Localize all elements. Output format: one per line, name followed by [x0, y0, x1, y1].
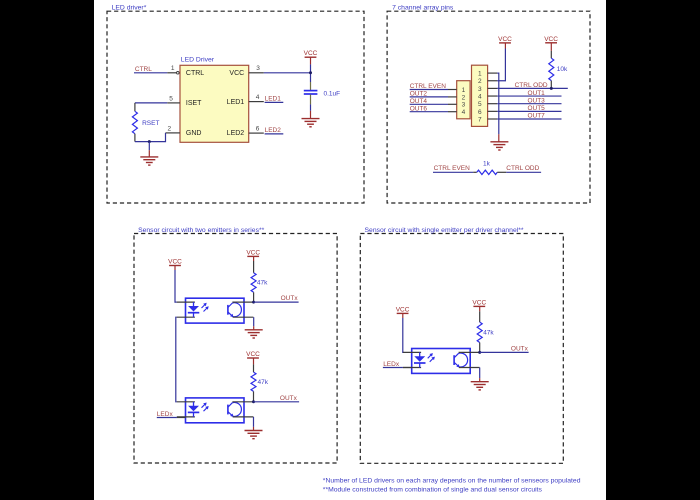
resistor RC 47k stem red [479, 306, 481, 311]
svg-text:7 channel array pins: 7 channel array pins [392, 5, 454, 12]
svg-text:OUTx: OUTx [280, 395, 298, 402]
svg-text:CTRL: CTRL [186, 70, 204, 77]
resistor RA 47k bottom lead [253, 292, 255, 302]
svg-text:VCC: VCC [498, 36, 512, 43]
resistor RA 47k stem red [253, 256, 255, 261]
ground under J2 [490, 142, 508, 150]
svg-text:47k: 47k [257, 280, 268, 287]
wire LED1 net [265, 101, 284, 103]
svg-text:47k: 47k [483, 329, 494, 336]
wire cap to ground blue [310, 104, 312, 110]
wire OUT5 net [497, 110, 561, 112]
connector J1 pin 4 stub [448, 111, 457, 113]
svg-text:VCC: VCC [168, 259, 182, 266]
wire OUT7 net [497, 118, 561, 120]
svg-text:**Module constructed from comb: **Module constructed from combination of… [323, 486, 543, 493]
svg-text:OUTx: OUTx [281, 295, 299, 302]
wire CTRL net [134, 72, 167, 74]
svg-text:5: 5 [169, 96, 173, 103]
junction dot OUTx B [252, 400, 255, 403]
frame: LED driver section [107, 11, 364, 203]
power VCC over J2 [498, 36, 512, 43]
resistor RB 47k stem red [253, 358, 255, 364]
opto sensor A emitter stub [233, 316, 254, 318]
resistor RC 47k bottom lead [479, 343, 481, 353]
wire ground stem red [148, 150, 150, 157]
svg-text:LED2: LED2 [227, 130, 245, 137]
resistor R 10k bottom lead [550, 81, 552, 89]
svg-text:RSET: RSET [142, 120, 159, 127]
svg-text:LED1: LED1 [227, 99, 245, 106]
pin 5 stub [167, 102, 180, 104]
opto sensor B light arrows [202, 403, 209, 412]
resistor RA 47k body [251, 273, 256, 293]
junction dot CTRL ODD [550, 87, 553, 90]
wire OUT4 net [410, 103, 448, 105]
wire CTRL ODD net [497, 87, 568, 89]
svg-text:LEDx: LEDx [383, 361, 400, 368]
opto sensor B body [186, 398, 245, 423]
svg-text:LED Driver: LED Driver [181, 57, 215, 64]
opto sensor A LED anode stub [177, 301, 195, 303]
wire cap ground stem red [310, 111, 312, 119]
wire CTRL ODD lower [506, 171, 541, 173]
wire A ground stem red [253, 326, 255, 330]
connector J2 pin 1 stub [488, 72, 498, 74]
wire LEDx C [383, 367, 403, 369]
svg-text:3: 3 [256, 65, 260, 72]
svg-text:VCC: VCC [304, 50, 318, 57]
black letterbox right [606, 0, 700, 500]
frame: 7 channel array pins section [387, 11, 590, 203]
svg-text:OUTx: OUTx [511, 346, 529, 353]
connector J2 pin 6 stub [488, 110, 498, 112]
opto sensor A collector stub [232, 301, 253, 303]
svg-text:OUT5: OUT5 [527, 105, 545, 112]
connector J2 7-pin header body [472, 65, 488, 126]
connector J2 pin 4 stub [488, 95, 498, 97]
power VCC symbol [304, 50, 318, 57]
opto sensor A LED emitter diode [188, 302, 200, 317]
opto sensor A light arrows [202, 303, 209, 312]
opto sensor B emitter stub [233, 416, 254, 418]
svg-text:7: 7 [478, 116, 482, 123]
wire J2 ground stem red [498, 134, 500, 142]
svg-text:6: 6 [256, 126, 260, 133]
wire OUTx A [254, 301, 299, 303]
connector J2 pin 3 stub [488, 87, 498, 89]
resistor R 1k body [477, 170, 498, 174]
wire OUTx C [480, 351, 529, 353]
wire rail to ground [148, 142, 150, 151]
wire GND pin to rail [135, 133, 166, 142]
opto sensor C phototransistor [454, 353, 468, 367]
svg-text:3: 3 [478, 86, 482, 93]
svg-text:Sensor circuit with two emitte: Sensor circuit with two emitters in seri… [138, 227, 265, 234]
wire OUT3 net [497, 103, 561, 105]
junction dot VCC node [309, 71, 312, 74]
pin 1 circle [177, 72, 180, 75]
svg-text:1k: 1k [483, 161, 491, 168]
wire A emitter to ground [253, 317, 255, 326]
wire VCC net [264, 72, 311, 74]
svg-text:2: 2 [168, 125, 172, 132]
svg-text:2: 2 [478, 78, 482, 85]
svg-text:LED1: LED1 [265, 95, 282, 102]
svg-text:6: 6 [478, 109, 482, 116]
wire B ground stem red [253, 427, 255, 431]
resistor R 10k stem red [550, 43, 552, 51]
resistor RA 47k top lead [253, 261, 255, 273]
wire VCC A stem red [174, 266, 176, 271]
pin 1 stub [167, 72, 176, 74]
power VCC sensor A anode [168, 259, 182, 266]
ground under RSET [140, 157, 158, 165]
pin 6 stub [249, 132, 264, 134]
opto sensor B phototransistor [228, 402, 242, 416]
wire cap bottom lead [310, 95, 312, 105]
opto sensor C LED emitter diode [414, 352, 426, 367]
svg-text:4: 4 [462, 109, 466, 116]
wire VCC C stem red [402, 313, 404, 318]
opto sensor C LED anode stub [403, 351, 421, 353]
wire LEDx B stub [177, 417, 186, 419]
resistor RB 47k top lead [253, 364, 255, 372]
opto sensor C light arrows [428, 353, 435, 362]
wire B emitter to ground [253, 417, 255, 427]
opto sensor C LED cathode stub [403, 367, 421, 369]
wire C emitter to ground [479, 368, 481, 379]
opto sensor A phototransistor [228, 303, 242, 317]
svg-text:Sensor circuit with single emi: Sensor circuit with single emitter per d… [365, 227, 524, 234]
resistor R 10k body [549, 58, 554, 80]
wire J2 pin2 to VCC [497, 49, 505, 81]
svg-text:1: 1 [478, 71, 482, 78]
black letterbox left [0, 0, 94, 500]
resistor RC 47k top lead [479, 311, 481, 322]
resistor R 10k top lead [550, 51, 552, 58]
svg-text:4: 4 [478, 93, 482, 100]
svg-text:10k: 10k [557, 66, 568, 73]
svg-text:GND: GND [186, 130, 202, 137]
wire CTRL EVEN net [410, 89, 448, 91]
wire OUTx B [254, 401, 300, 403]
wire LED2 net [265, 133, 284, 135]
opto sensor B collector stub [232, 401, 253, 403]
wire J2 pin1 to ground [497, 73, 499, 134]
opto sensor C emitter stub [459, 367, 480, 369]
junction dot OUTx A [252, 301, 255, 304]
wire VCC stem red [310, 57, 312, 64]
wire C ground stem red [479, 378, 481, 382]
svg-text:4: 4 [256, 94, 260, 101]
wire OUT6 net [410, 111, 448, 113]
wire OUT2 net [410, 96, 448, 98]
pin 3 stub [249, 72, 264, 74]
opto sensor C collector stub [459, 351, 480, 353]
pin 2 stub [166, 132, 181, 134]
wire LEDx C stub [403, 367, 412, 369]
connector J2 pin 2 stub [488, 80, 498, 82]
wire J2 VCC stem red [504, 43, 506, 49]
svg-text:5: 5 [478, 101, 482, 108]
junction dot OUTx C [478, 351, 481, 354]
wire A cathode to B anode [176, 317, 177, 402]
resistor R 1k left lead [473, 171, 477, 173]
resistor RB 47k bottom lead [253, 391, 255, 401]
svg-text:LED2: LED2 [265, 127, 282, 134]
svg-text:VCC: VCC [229, 70, 244, 77]
svg-text:CTRL: CTRL [135, 66, 152, 73]
svg-text:CTRL ODD: CTRL ODD [506, 165, 539, 172]
svg-text:OUT1: OUT1 [527, 90, 545, 97]
resistor RSET bottom lead [134, 134, 136, 142]
svg-text:*Number of LED drivers on each: *Number of LED drivers on each array dep… [323, 478, 581, 485]
opto sensor A body [186, 298, 245, 323]
svg-text:1: 1 [171, 65, 175, 72]
svg-text:LED driver*: LED driver* [112, 5, 147, 12]
svg-text:1: 1 [462, 87, 466, 94]
wire VCC stem blue [310, 64, 312, 82]
ground sensor B [245, 431, 263, 439]
ground sensor C [471, 382, 489, 390]
svg-text:0.1uF: 0.1uF [324, 91, 341, 98]
wire VCC A vertical [175, 270, 177, 302]
resistor RSET body [132, 111, 137, 133]
opto sensor B LED emitter diode [188, 402, 200, 417]
connector J1 4-pin header body [457, 81, 470, 119]
power VCC sensor B pullup [246, 351, 260, 358]
svg-text:VCC: VCC [396, 306, 410, 313]
ground sensor A [245, 330, 263, 338]
pin 4 stub [249, 101, 264, 103]
opto sensor C body [412, 349, 471, 374]
power VCC over R 10k [544, 36, 558, 43]
opto sensor A LED cathode stub [177, 316, 195, 318]
opto sensor B LED cathode stub [177, 416, 195, 418]
frame: single emitter sensor section [360, 234, 563, 464]
power VCC sensor C anode [396, 306, 410, 313]
frame: two emitter sensor section [134, 234, 337, 464]
ground under C1 [302, 119, 320, 127]
resistor R 1k right lead [497, 171, 506, 173]
resistor RSET top lead [134, 103, 136, 111]
svg-text:2: 2 [462, 94, 466, 101]
wire OUT1 net [497, 95, 561, 97]
svg-text:CTRL ODD: CTRL ODD [515, 82, 548, 89]
svg-text:OUT3: OUT3 [527, 97, 545, 104]
connector J2 pin 7 stub [488, 118, 498, 120]
wire LEDx B [157, 417, 177, 419]
opto sensor B LED anode stub [177, 401, 195, 403]
svg-text:47k: 47k [258, 379, 269, 386]
connector J1 pin 2 stub [448, 96, 457, 98]
svg-text:ISET: ISET [186, 100, 202, 107]
connector J1 pin 3 stub [448, 103, 457, 105]
wire cap top lead [310, 82, 312, 90]
wire ISET net [135, 102, 167, 104]
wire CTRL EVEN lower [433, 171, 473, 173]
wire VCC C vertical [403, 318, 404, 352]
svg-text:3: 3 [462, 102, 466, 109]
resistor RB 47k body [251, 372, 256, 391]
connector J2 pin 5 stub [488, 103, 498, 105]
svg-text:VCC: VCC [246, 249, 260, 256]
svg-text:VCC: VCC [544, 36, 558, 43]
op-amp U1 LED Driver IC body [180, 65, 249, 142]
resistor RC 47k body [477, 322, 482, 342]
svg-text:OUT7: OUT7 [527, 113, 545, 120]
capacitor C1 plates [304, 90, 318, 92]
svg-text:CTRL EVEN: CTRL EVEN [434, 165, 471, 172]
power VCC sensor A pullup [246, 249, 260, 256]
svg-text:VCC: VCC [246, 351, 260, 358]
junction dot GND rail [148, 140, 151, 143]
power VCC sensor C pullup [472, 299, 486, 306]
svg-text:VCC: VCC [472, 299, 486, 306]
connector J1 pin 1 stub [448, 89, 457, 91]
